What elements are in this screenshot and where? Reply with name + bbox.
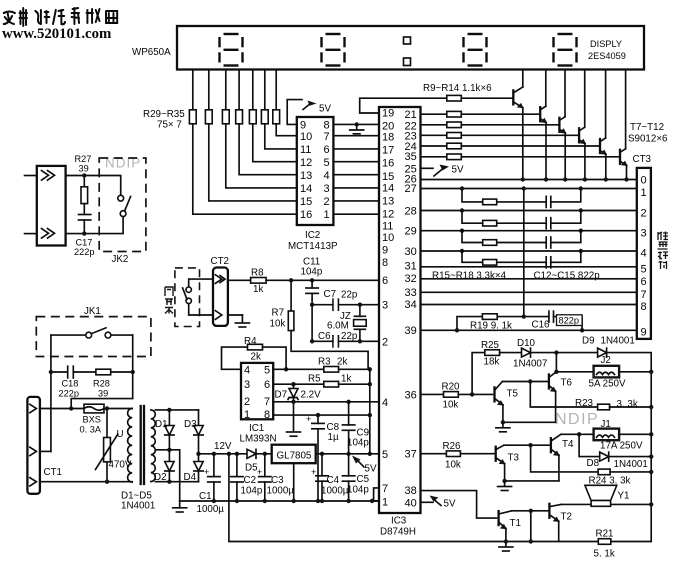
transistor T2 — [548, 504, 550, 518]
capacitor C9 104p — [348, 402, 350, 425]
resistor R8 1k — [251, 278, 267, 284]
svg-text:39: 39 — [98, 389, 108, 399]
svg-text:6: 6 — [641, 276, 647, 288]
wire pin40 + 5V arrow — [421, 501, 434, 503]
switch JK1 — [51, 334, 86, 336]
RC pair 2: R16 / C13 — [462, 211, 546, 224]
node D1 top — [167, 408, 171, 412]
svg-text:1N4001: 1N4001 — [614, 459, 648, 470]
svg-text:7: 7 — [382, 483, 388, 495]
7-segment digit 4 — [554, 34, 577, 66]
svg-text:T6: T6 — [561, 378, 573, 389]
svg-text:D7: D7 — [275, 390, 288, 401]
svg-text:8: 8 — [324, 120, 330, 132]
svg-text:7: 7 — [324, 131, 330, 143]
svg-text:C16: C16 — [532, 320, 551, 331]
diode D2 — [168, 450, 170, 462]
svg-text:5. 1k: 5. 1k — [594, 549, 615, 560]
svg-text:R3: R3 — [318, 357, 331, 368]
wire T5 collector to T6 base — [502, 381, 549, 383]
svg-text:JK2: JK2 — [112, 254, 129, 265]
svg-text:104p: 104p — [241, 486, 263, 497]
RC pair 3: R17 / C14 — [462, 231, 546, 243]
node T3c/T4b — [528, 443, 532, 447]
varistor U 470V — [106, 409, 108, 438]
wire T3 collector to T4 base — [504, 444, 551, 446]
node varistor top — [105, 406, 109, 410]
svg-text:104p: 104p — [301, 267, 323, 278]
resistor R20 10k — [444, 392, 459, 398]
svg-text:2.2V: 2.2V — [301, 390, 322, 401]
wire pin21 row / resistor R10 — [421, 113, 447, 115]
svg-text:104p: 104p — [347, 485, 369, 496]
wire pin7 row to IC3 pin4 — [273, 401, 379, 403]
svg-text:32: 32 — [405, 273, 417, 285]
svg-text:15: 15 — [300, 196, 312, 208]
node pin8 row right — [368, 413, 372, 417]
transistor T8 — [539, 107, 541, 121]
resistor R4 loop pin4 to pin5 — [222, 347, 248, 369]
svg-text:D8: D8 — [587, 458, 600, 469]
node C11 bottom / pin3 row — [310, 303, 314, 307]
relay coil J2 — [594, 366, 620, 378]
svg-text:3: 3 — [244, 379, 250, 391]
resistor R27 — [83, 176, 85, 187]
svg-text:Y1: Y1 — [618, 491, 630, 502]
svg-text:222p: 222p — [59, 389, 79, 399]
wire R23 branch — [530, 382, 597, 408]
resistor R26 10k — [446, 451, 460, 457]
svg-text:R20: R20 — [442, 382, 461, 393]
svg-text:5: 5 — [641, 264, 647, 276]
svg-text:18k: 18k — [484, 357, 500, 368]
resistor R33 column 5 — [252, 70, 254, 110]
svg-text:C7: C7 — [324, 289, 337, 300]
svg-text:17: 17 — [382, 145, 394, 157]
node junction R27 top — [82, 173, 86, 177]
svg-text:12: 12 — [382, 209, 394, 221]
wire R24 branch — [531, 445, 599, 472]
node C2 top — [235, 452, 239, 456]
wire row pin31 / CT3-5 — [421, 266, 637, 268]
wire pin7/pin1 loop — [374, 488, 379, 501]
node D1/D2 junction — [167, 448, 171, 452]
ground symbol T1 — [505, 542, 507, 547]
wire pin36 row — [421, 393, 444, 395]
svg-text:1N4001: 1N4001 — [601, 336, 635, 347]
svg-text:R15~R18 3.3k×4: R15~R18 3.3k×4 — [432, 270, 507, 281]
resistor R24 3.3k — [598, 469, 610, 475]
ground symbol at centre tap — [173, 507, 187, 509]
display module box WP650A / 2ES4059 — [177, 26, 644, 70]
colon squares — [404, 37, 411, 44]
node D7 top — [291, 382, 295, 386]
svg-text:0: 0 — [641, 175, 647, 187]
svg-text:4: 4 — [382, 397, 388, 409]
svg-text:15: 15 — [382, 171, 394, 183]
wire JK1 right vertical — [132, 335, 134, 372]
transistor T6 — [548, 375, 550, 389]
wire row pin33 / CT3-7 — [421, 291, 637, 293]
svg-text:1: 1 — [641, 187, 647, 199]
node fuse row left — [69, 406, 73, 410]
transistor T9 — [558, 118, 560, 132]
ground symbol T5 — [502, 422, 504, 427]
label 822p (boxed) — [557, 315, 583, 326]
wire T1 collector to T2 base — [512, 510, 550, 512]
wire CT1 pin3 row to transformer bottom — [40, 481, 132, 483]
svg-text:10k: 10k — [270, 319, 286, 330]
svg-text:22p: 22p — [341, 331, 358, 342]
transistor T12 — [619, 150, 621, 164]
diode D4 — [198, 454, 200, 462]
driver IC2 MCT1413P — [297, 117, 334, 225]
svg-text:5: 5 — [264, 365, 270, 377]
svg-text:10: 10 — [382, 232, 394, 244]
svg-text:1000µ: 1000µ — [267, 486, 295, 497]
svg-text:5: 5 — [382, 449, 388, 461]
svg-text:5V: 5V — [452, 165, 464, 176]
svg-text:75× 7: 75× 7 — [157, 120, 182, 131]
svg-text:R21: R21 — [596, 529, 614, 540]
wire pin8 row — [273, 414, 370, 416]
wire stub left top — [25, 175, 37, 177]
node C4 top — [320, 452, 324, 456]
svg-text:5V: 5V — [319, 104, 331, 115]
diode D8 1N4001 — [600, 452, 609, 461]
capacitor C8 1u — [317, 415, 319, 423]
wire pin23 row / resistor R12 — [421, 134, 447, 136]
svg-text:CT3: CT3 — [633, 154, 652, 165]
svg-text:28: 28 — [405, 205, 417, 217]
wire pin24 row / resistor R13 — [421, 145, 447, 147]
5V arrow at regulator output — [352, 456, 361, 464]
secondary winding — [151, 410, 155, 482]
svg-text:12: 12 — [300, 157, 312, 169]
node gnd branch top — [227, 452, 231, 456]
svg-text:D9: D9 — [582, 336, 595, 347]
op-amp IC1 LM393N — [241, 363, 273, 419]
svg-text:S9012×6: S9012×6 — [628, 134, 668, 145]
transistor T7 — [512, 90, 514, 104]
svg-text:C12~C15 822p: C12~C15 822p — [534, 270, 601, 281]
svg-text:4: 4 — [641, 248, 647, 260]
svg-text:DISPLY: DISPLY — [590, 39, 622, 49]
relay coil J1 — [594, 429, 620, 441]
node R4 right — [284, 367, 288, 371]
resistor R32 column 4 — [238, 70, 240, 110]
RC pair 4: R18 / C15 — [462, 251, 546, 262]
7-segment digit 3 — [464, 34, 487, 66]
wire D8 branch — [579, 434, 600, 456]
svg-text:1k: 1k — [341, 374, 351, 385]
svg-text:T3: T3 — [508, 453, 520, 464]
node R5 right — [368, 382, 372, 386]
svg-text:16: 16 — [382, 158, 394, 170]
transistor T10 — [578, 128, 580, 142]
switch box (dashed) — [175, 268, 200, 327]
resistor R31 column 3 — [225, 70, 227, 110]
wire row pin39 / CT3-9 — [421, 329, 637, 331]
svg-text:T7~T12: T7~T12 — [630, 122, 664, 133]
svg-text:9: 9 — [641, 327, 647, 339]
speaker Y1 — [585, 485, 617, 500]
svg-text:16: 16 — [300, 209, 312, 221]
svg-text:38: 38 — [405, 485, 417, 497]
svg-text:34: 34 — [405, 299, 417, 311]
svg-text:3: 3 — [382, 300, 388, 312]
svg-text:R19 9. 1k: R19 9. 1k — [470, 320, 512, 331]
svg-text:10k: 10k — [443, 400, 459, 411]
svg-text:IC3: IC3 — [391, 516, 407, 527]
wire CT1 pin2 row — [40, 450, 51, 452]
wire R25 feed loop — [472, 353, 485, 395]
svg-text:2: 2 — [324, 196, 330, 208]
wire 12V feed down to bottom rail — [229, 454, 651, 542]
svg-text:2k: 2k — [251, 352, 261, 363]
svg-text:13: 13 — [382, 196, 394, 208]
svg-text:10k: 10k — [445, 460, 461, 471]
capacitor C18 — [51, 371, 68, 373]
svg-text:T2: T2 — [561, 512, 572, 523]
transistor T1 — [497, 511, 499, 525]
svg-text:0. 3A: 0. 3A — [80, 425, 102, 435]
wire stub left bottom — [25, 233, 37, 235]
wire IC2.1 to IC3.12 — [333, 213, 379, 215]
svg-text:JK1: JK1 — [84, 306, 101, 317]
svg-text:R28: R28 — [93, 379, 110, 389]
wire pin3 row (C7 to IC3) — [312, 304, 379, 306]
wire row pin30 / CT3-4 — [421, 250, 637, 252]
svg-text:C6: C6 — [318, 331, 331, 342]
svg-text:5A 250V: 5A 250V — [589, 379, 627, 390]
svg-text:222p: 222p — [74, 247, 94, 257]
wire 5V vertical (R3/R5 pull-ups) — [369, 369, 371, 454]
svg-text:J2: J2 — [601, 355, 611, 366]
wire 12V row — [199, 453, 248, 455]
node crystal bottom — [358, 339, 362, 343]
wire IC2.7 to IC3.18 — [333, 135, 379, 137]
wire 7805 ground pin — [293, 463, 295, 501]
node T1 emitter on rail — [504, 539, 508, 543]
wire pin37 row — [421, 453, 447, 455]
node C1 top — [212, 452, 216, 456]
svg-text:C4: C4 — [327, 475, 340, 486]
diode D10 1N4007 — [522, 348, 531, 357]
svg-text:CT2: CT2 — [211, 256, 230, 267]
svg-text:D1: D1 — [155, 419, 168, 430]
svg-text:D8749H: D8749H — [380, 527, 416, 538]
svg-text:R23: R23 — [575, 398, 594, 409]
node D3/D4 12V junction — [196, 452, 200, 456]
resistor R23 3.3k — [598, 404, 610, 410]
wire IC2.4 to IC3.15 — [333, 174, 379, 176]
7-segment digit 2 — [322, 34, 345, 66]
svg-text:14: 14 — [300, 183, 312, 195]
wire IC2.3 to IC3.14 — [333, 187, 379, 189]
svg-text:3: 3 — [641, 228, 647, 240]
svg-text:8: 8 — [382, 257, 388, 269]
ground row T5/T6 — [503, 421, 556, 423]
node R20/R25 — [470, 392, 474, 396]
5V feed bracket to IC2 pin9 — [287, 100, 302, 125]
fuse BXS 0.3A — [84, 404, 104, 413]
svg-text:17A 250V: 17A 250V — [600, 441, 643, 452]
svg-text:822p: 822p — [559, 316, 579, 326]
label 门 (drawn) — [165, 287, 173, 314]
node T5c/T6b — [528, 379, 532, 383]
wire branch down to rail — [530, 511, 532, 542]
wire fuse to transformer — [104, 408, 132, 410]
svg-text:5V: 5V — [365, 464, 377, 475]
rail nodes — [212, 499, 216, 503]
keyboard vertical (row1 to R19 row) — [523, 189, 525, 317]
svg-text:1: 1 — [324, 209, 330, 221]
svg-text:www.520101.com: www.520101.com — [2, 26, 112, 42]
capacitor C11 — [311, 280, 313, 288]
diode D1 — [168, 410, 170, 426]
svg-text:IC2: IC2 — [305, 230, 320, 241]
RC pair 1: R15 / C12 — [462, 189, 546, 202]
wire row pin29 / CT3-3 — [421, 230, 637, 232]
svg-text:D10: D10 — [517, 338, 536, 349]
resistor R25 18k — [485, 350, 500, 356]
svg-text:C2: C2 — [244, 475, 257, 486]
svg-text:11: 11 — [382, 221, 393, 233]
node T1c/T2b — [529, 509, 533, 513]
node T4 collector — [577, 432, 581, 436]
svg-text:IC1: IC1 — [249, 423, 264, 434]
svg-text:40: 40 — [405, 497, 417, 509]
ground rail under power section — [180, 500, 379, 502]
node junction C17 bottom — [82, 231, 86, 235]
svg-text:U: U — [117, 429, 124, 440]
svg-text:36: 36 — [405, 389, 417, 401]
resistor R35 column 7 — [275, 70, 277, 110]
svg-text:1000µ: 1000µ — [321, 486, 349, 497]
svg-text:GL7805: GL7805 — [277, 451, 312, 462]
svg-text:6.0M: 6.0M — [327, 321, 349, 332]
connector CT3 — [637, 168, 651, 339]
svg-text:1µ: 1µ — [328, 432, 339, 443]
wire IC2.6 to IC3.17 — [333, 148, 379, 150]
wire CT2 bottom to ground — [228, 314, 243, 316]
svg-text:R4: R4 — [244, 336, 257, 347]
svg-text:6: 6 — [264, 379, 270, 391]
resistor R7 10k (vertical, to 5V) — [290, 280, 292, 311]
svg-text:27: 27 — [405, 183, 417, 195]
node R3 right — [368, 367, 372, 371]
node C3 top — [263, 452, 267, 456]
wire IC2.2 to IC3.13 — [333, 200, 379, 202]
node D2 bottom — [167, 480, 171, 484]
diode D9 1N4001 — [598, 348, 607, 357]
wire speaker row — [562, 503, 652, 505]
svg-text:4: 4 — [244, 365, 250, 377]
primary winding — [128, 409, 133, 483]
capacitor C17 — [79, 214, 91, 216]
node R28 row right — [131, 370, 135, 374]
svg-text:NDIP: NDIP — [555, 411, 599, 428]
node C8 top — [316, 413, 320, 417]
wire pin35 row / resistor R14 — [421, 156, 447, 158]
svg-text:C18: C18 — [62, 379, 79, 389]
relay contact box JK2 (dashed) — [99, 158, 146, 252]
svg-text:3. 3k: 3. 3k — [617, 399, 638, 410]
svg-text:R27: R27 — [75, 154, 92, 164]
zener D7 2.2V — [293, 384, 295, 388]
wire CT2 to R8 — [228, 279, 251, 281]
svg-text:22p: 22p — [341, 290, 358, 301]
svg-text:37: 37 — [405, 449, 417, 461]
svg-text:7: 7 — [641, 289, 647, 301]
svg-text:13: 13 — [300, 170, 312, 182]
svg-text:T5: T5 — [507, 389, 519, 400]
door switch contacts — [189, 279, 213, 287]
resistor R28 — [96, 369, 111, 375]
svg-text:2: 2 — [382, 336, 388, 348]
svg-text:2: 2 — [244, 396, 250, 408]
crystal JZ 6.0M — [359, 305, 361, 317]
switch JK2 — [118, 195, 124, 201]
svg-text:6: 6 — [324, 144, 330, 156]
svg-text:R5: R5 — [308, 374, 321, 385]
ground symbol T3 — [504, 481, 506, 486]
node C9 top — [346, 400, 350, 404]
svg-text:10: 10 — [300, 131, 312, 143]
wire row pin28 / CT3-2 — [421, 210, 637, 212]
capacitor C1 1000u — [213, 454, 215, 477]
wire row pin26 / CT3-0 — [421, 179, 637, 181]
svg-text:C3: C3 — [271, 475, 284, 486]
svg-text:1k: 1k — [253, 284, 263, 295]
wire JK1 left vertical — [50, 335, 52, 451]
svg-text:WP650A: WP650A — [132, 47, 171, 58]
diode D5 — [247, 449, 256, 458]
node C6 left — [310, 339, 314, 343]
svg-text:LM393N: LM393N — [240, 434, 277, 445]
svg-text:12V: 12V — [214, 441, 232, 452]
wire pin6 row with R5 — [273, 383, 324, 385]
resistor R5 — [324, 381, 339, 387]
label 键盘控制 (drawn strokes) — [658, 232, 669, 270]
wire fuse row — [40, 408, 84, 410]
svg-text:7: 7 — [264, 396, 270, 408]
svg-text:R8: R8 — [251, 268, 264, 279]
wire bottom row to JK2 — [66, 217, 124, 234]
connector (mains plug) — [37, 166, 66, 246]
wire secondary bottom row — [155, 481, 198, 483]
svg-text:9: 9 — [300, 120, 306, 132]
transistor T5 — [493, 387, 495, 401]
capacitor C3 1000u — [264, 454, 266, 477]
wire T4 collector to J1 — [561, 433, 594, 435]
svg-text:1N4001: 1N4001 — [121, 501, 155, 512]
svg-text:1N4007: 1N4007 — [513, 359, 547, 370]
svg-text:C5: C5 — [357, 474, 370, 485]
svg-text:R7: R7 — [272, 308, 285, 319]
node R7 top — [289, 278, 293, 282]
capacitor C4 1000u — [321, 454, 323, 476]
connector CT2 — [213, 268, 228, 326]
ground row T3/T4 — [505, 480, 559, 482]
wire secondary centre tap — [155, 450, 179, 501]
svg-text:3: 3 — [324, 183, 330, 195]
svg-text:31: 31 — [405, 261, 417, 273]
wire pin38 row — [421, 491, 497, 518]
wire IC3 pin19 loop over top — [360, 98, 447, 113]
svg-text:T1: T1 — [510, 518, 521, 529]
